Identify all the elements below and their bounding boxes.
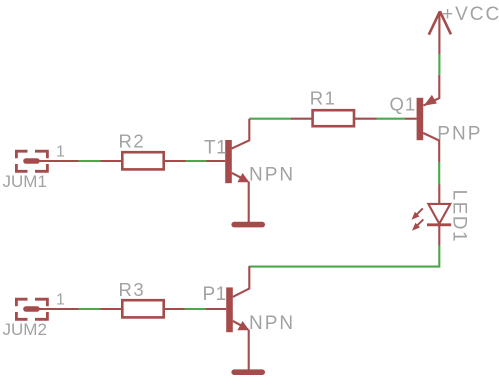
wire net LED1 to P1 collector <box>249 246 439 267</box>
ground GND2 <box>234 369 262 375</box>
svg-text:JUM2: JUM2 <box>3 320 47 339</box>
wire net R2 to T1 base <box>186 160 207 162</box>
power symbol +VCC <box>429 11 451 54</box>
svg-text:+VCC: +VCC <box>442 4 499 25</box>
wire net JUM2 to R3 <box>79 308 101 310</box>
resistor R1 <box>291 110 377 126</box>
transistor T1 (NPN) <box>207 119 250 223</box>
svg-text:T1: T1 <box>204 138 227 159</box>
svg-text:NPN: NPN <box>249 313 295 334</box>
wire net JUM1 to R2 <box>79 160 101 162</box>
transistor P1 (NPN) <box>206 266 249 371</box>
LED LED1 <box>412 185 452 246</box>
svg-text:R3: R3 <box>119 279 146 300</box>
wire net R1 to Q1 base <box>377 118 406 120</box>
svg-text:R1: R1 <box>310 87 337 108</box>
wire net VCC to Q1 emitter <box>438 54 440 75</box>
svg-text:NPN: NPN <box>249 165 295 186</box>
svg-text:R2: R2 <box>119 130 146 151</box>
svg-text:1: 1 <box>56 292 65 309</box>
resistor R3 <box>101 300 185 317</box>
svg-text:JUM1: JUM1 <box>3 172 47 191</box>
wire net R3 to P1 base <box>185 308 207 310</box>
svg-text:PNP: PNP <box>437 124 482 145</box>
svg-text:LED1: LED1 <box>448 190 469 244</box>
transistor Q1 (PNP) <box>405 75 439 162</box>
svg-text:Q1: Q1 <box>390 94 417 115</box>
resistor R2 <box>101 152 186 169</box>
jumper JUM1 <box>16 151 78 171</box>
wire net Q1 collector to LED1 <box>438 162 440 185</box>
wire net T1 collector to R1 <box>249 118 291 120</box>
jumper JUM2 <box>16 299 78 319</box>
ground GND1 <box>234 222 262 228</box>
svg-text:P1: P1 <box>203 284 227 305</box>
svg-text:1: 1 <box>56 144 65 161</box>
